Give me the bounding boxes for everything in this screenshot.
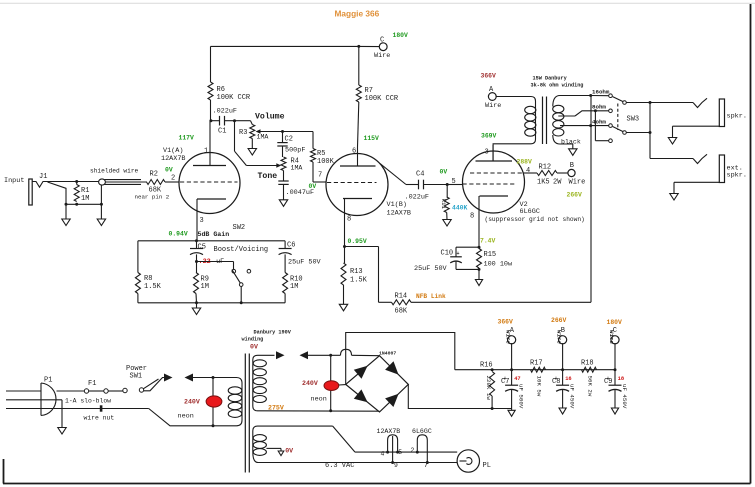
svg-text:2: 2: [171, 175, 175, 183]
svg-text:F1: F1: [88, 380, 96, 388]
svg-text:25uF 50V: 25uF 50V: [414, 265, 448, 273]
svg-text:1N4007: 1N4007: [379, 350, 396, 356]
svg-text:7: 7: [318, 172, 322, 180]
svg-text:PL: PL: [483, 462, 491, 470]
svg-text:100K CCR: 100K CCR: [217, 94, 251, 102]
svg-text:16: 16: [565, 376, 571, 382]
svg-text:180V: 180V: [607, 319, 623, 326]
svg-text:near pin 2: near pin 2: [135, 194, 170, 201]
svg-text:Wire: Wire: [374, 52, 390, 60]
svg-text:5dB Gain: 5dB Gain: [198, 231, 230, 238]
svg-text:R12: R12: [539, 164, 552, 172]
svg-text:SW2: SW2: [233, 224, 246, 232]
svg-text:wire nut: wire nut: [84, 415, 115, 422]
svg-text:(suppressor grid not shown): (suppressor grid not shown): [485, 216, 585, 223]
svg-text:R15: R15: [484, 251, 497, 259]
svg-text:15W Danbury: 15W Danbury: [533, 76, 568, 82]
svg-text:uF 500V: uF 500V: [518, 384, 525, 409]
svg-text:4: 4: [526, 167, 530, 175]
svg-text:10K 5w: 10K 5w: [536, 376, 543, 397]
svg-text:220K 1w: 220K 1w: [485, 376, 492, 401]
svg-text:V1(A): V1(A): [163, 147, 183, 155]
svg-text:115V: 115V: [364, 135, 380, 142]
svg-text:.022uF: .022uF: [213, 108, 237, 116]
svg-text:240V: 240V: [302, 380, 318, 387]
svg-text:R3: R3: [239, 129, 247, 137]
svg-text:100K CCR: 100K CCR: [365, 95, 399, 103]
svg-text:shielded wire: shielded wire: [90, 168, 139, 175]
svg-text:R11: R11: [440, 199, 447, 210]
svg-text:neon: neon: [311, 395, 327, 403]
svg-text:3: 3: [200, 217, 204, 225]
svg-text:Wire: Wire: [556, 330, 563, 344]
svg-text:R1: R1: [81, 187, 89, 195]
svg-text:4: 4: [381, 450, 385, 457]
svg-text:1.5K: 1.5K: [144, 283, 162, 291]
svg-text:C1: C1: [218, 128, 226, 136]
svg-text:56K 2w: 56K 2w: [587, 376, 594, 397]
svg-text:winding: winding: [242, 337, 264, 343]
svg-text:440K: 440K: [452, 204, 468, 211]
svg-text:8ohm: 8ohm: [592, 104, 606, 111]
svg-text:1: 1: [204, 147, 208, 155]
svg-text:288V: 288V: [517, 159, 533, 166]
svg-text:Wire: Wire: [485, 102, 501, 110]
svg-text:R18: R18: [581, 360, 594, 368]
svg-text:V1(B): V1(B): [387, 201, 407, 209]
svg-text:Wire: Wire: [569, 179, 586, 187]
svg-text:18: 18: [618, 376, 624, 382]
svg-text:0V: 0V: [440, 169, 448, 176]
svg-text:+: +: [555, 376, 558, 382]
svg-text:0.95V: 0.95V: [348, 238, 367, 245]
svg-text:Wire: Wire: [608, 330, 615, 344]
svg-text:240V: 240V: [184, 398, 200, 405]
svg-text:R8: R8: [144, 275, 152, 283]
svg-text:8: 8: [347, 216, 351, 224]
svg-text:12AX7B: 12AX7B: [161, 155, 185, 163]
svg-text:C2: C2: [285, 136, 293, 144]
svg-text:180V: 180V: [393, 32, 409, 39]
svg-text:369V: 369V: [481, 133, 497, 140]
svg-text:6.3 VAC: 6.3 VAC: [325, 462, 354, 470]
svg-text:.022uF: .022uF: [405, 193, 429, 201]
svg-text:1.5K: 1.5K: [350, 277, 368, 285]
svg-text:R14: R14: [395, 292, 408, 300]
svg-text:9: 9: [394, 462, 398, 469]
svg-text:Maggie 366: Maggie 366: [335, 9, 380, 19]
svg-text:R7: R7: [365, 87, 373, 95]
svg-text:1MA: 1MA: [291, 165, 303, 172]
svg-text:uF 450V: uF 450V: [569, 384, 576, 409]
svg-text:0V: 0V: [250, 344, 258, 351]
svg-text:Wire: Wire: [505, 330, 512, 344]
svg-text:7: 7: [424, 462, 428, 469]
svg-text:spkr.: spkr.: [727, 172, 747, 180]
svg-text:C5: C5: [198, 243, 206, 251]
svg-text:1-A slo-blow: 1-A slo-blow: [65, 398, 111, 405]
svg-text:SW1: SW1: [130, 373, 143, 381]
svg-text:3: 3: [485, 148, 489, 156]
svg-text:Input: Input: [4, 177, 24, 185]
svg-text:SW3: SW3: [627, 116, 640, 124]
svg-text:5: 5: [398, 449, 402, 456]
svg-text:black: black: [561, 139, 581, 146]
svg-text:neon: neon: [178, 413, 194, 421]
svg-text:+: +: [607, 376, 610, 382]
svg-text:C: C: [380, 37, 384, 45]
svg-text:J1: J1: [39, 173, 47, 181]
svg-text:C4: C4: [416, 171, 424, 179]
svg-text:R17: R17: [530, 359, 543, 367]
svg-text:7.4V: 7.4V: [480, 238, 496, 245]
svg-text:8: 8: [470, 213, 474, 221]
svg-text:16ohm: 16ohm: [592, 89, 610, 96]
svg-text:R13: R13: [350, 268, 363, 276]
svg-text:0V: 0V: [165, 167, 173, 174]
svg-text:Boost/Voicing: Boost/Voicing: [214, 246, 269, 254]
svg-text:12AX7B: 12AX7B: [377, 428, 401, 435]
svg-text:266V: 266V: [551, 317, 567, 324]
svg-text:100K: 100K: [317, 158, 335, 166]
svg-text:1M: 1M: [81, 195, 89, 203]
svg-text:0.94V: 0.94V: [169, 231, 188, 238]
svg-text:2: 2: [411, 447, 415, 454]
svg-text:2W: 2W: [553, 179, 562, 187]
svg-text:1MA: 1MA: [257, 134, 269, 141]
svg-text:NFB Link: NFB Link: [416, 293, 446, 300]
svg-text:1M: 1M: [201, 283, 209, 291]
svg-text:366V: 366V: [481, 73, 497, 80]
svg-text:R2: R2: [150, 171, 158, 179]
svg-text:6L6GC: 6L6GC: [412, 428, 432, 435]
svg-text:266V: 266V: [567, 192, 583, 199]
svg-text:C6: C6: [287, 241, 295, 249]
svg-text:0V: 0V: [285, 447, 293, 454]
svg-text:+: +: [504, 376, 507, 382]
svg-text:.0047uF: .0047uF: [286, 189, 315, 197]
svg-text:Tone: Tone: [258, 172, 278, 181]
svg-text:68K: 68K: [395, 308, 408, 316]
svg-text:spkr.: spkr.: [727, 113, 747, 121]
svg-text:3k-8k ohm winding: 3k-8k ohm winding: [531, 83, 584, 89]
svg-text:1M: 1M: [290, 283, 298, 291]
svg-text:12AX7B: 12AX7B: [387, 210, 411, 218]
svg-text:+: +: [457, 251, 460, 257]
svg-text:R5: R5: [317, 150, 325, 158]
svg-text:R6: R6: [217, 86, 225, 94]
svg-text:500pF: 500pF: [285, 146, 305, 154]
svg-text:47: 47: [514, 376, 520, 382]
svg-text:6: 6: [352, 148, 356, 156]
svg-text:C10: C10: [441, 250, 454, 258]
svg-text:100 10w: 100 10w: [484, 261, 513, 269]
svg-text:366V: 366V: [498, 319, 514, 326]
svg-text:4ohm: 4ohm: [592, 118, 606, 125]
svg-text:B: B: [570, 162, 574, 170]
svg-text:6L6GC: 6L6GC: [520, 208, 540, 216]
svg-text:uF 450V: uF 450V: [621, 384, 628, 409]
svg-text:R16: R16: [480, 361, 493, 369]
svg-text:Danbury 190V: Danbury 190V: [254, 330, 292, 336]
svg-text:P1: P1: [44, 377, 52, 385]
svg-text:Volume: Volume: [255, 112, 285, 122]
svg-text:117V: 117V: [179, 135, 195, 142]
svg-text:25uF 50V: 25uF 50V: [288, 258, 322, 266]
svg-text:1K5: 1K5: [537, 179, 550, 187]
svg-text:275V: 275V: [268, 404, 284, 411]
